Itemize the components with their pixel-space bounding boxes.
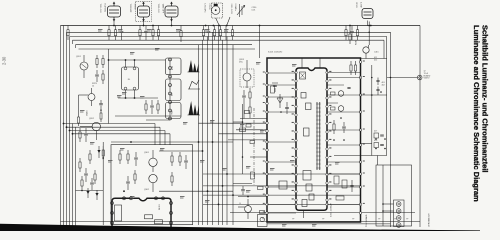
svg-text:X201 4.433: X201 4.433 [230, 4, 232, 15]
waveform W2 [189, 80, 199, 89]
svg-text:VIDEO: VIDEO [424, 78, 430, 80]
wire bus drop 259 [259, 26, 261, 59]
wire below IC [302, 210, 304, 218]
wire h130 [70, 130, 166, 132]
svg-text:T203 4.43: T203 4.43 [157, 4, 159, 14]
transistor Q301 [149, 158, 157, 166]
component inside DL301 [115, 205, 122, 221]
capacitor C235 [100, 100, 102, 103]
wire coil stub [113, 21, 115, 27]
junction [134, 97, 136, 99]
shield left v72 stub [72, 40, 74, 44]
transistor Q202 [92, 122, 100, 130]
junction [222, 185, 224, 187]
wire pin link [267, 141, 296, 143]
resistor R226 [145, 100, 147, 104]
transistor Q201 [80, 62, 88, 70]
junction [375, 148, 377, 150]
resistor R402 [355, 61, 357, 65]
wire h98 [118, 97, 158, 99]
resistor R305 [134, 170, 136, 174]
junction [125, 59, 127, 61]
resistor R403 [350, 61, 352, 65]
svg-text:C415: C415 [374, 52, 379, 54]
wire v78 [78, 95, 80, 114]
filter block FL202 [166, 58, 182, 75]
resistor R211 [232, 26, 234, 30]
wire pin link [267, 173, 296, 175]
svg-text:CT201: CT201 [134, 4, 136, 11]
svg-text:TAKE OFF: TAKE OFF [162, 4, 165, 14]
wire pin link [267, 161, 296, 163]
resistor R401 [349, 30, 351, 34]
wire pin link [267, 84, 296, 86]
svg-text:417: 417 [374, 131, 377, 133]
resistor R210 [220, 26, 222, 30]
svg-text:T202 BPF: T202 BPF [129, 4, 131, 14]
connector J402 [394, 200, 405, 227]
junction on 9V bus [152, 25, 154, 27]
wire pin link extra [327, 72, 361, 74]
wire v371 [371, 65, 373, 156]
wire h133 [73, 133, 171, 135]
capacitor C206 [225, 26, 227, 31]
junction on 9V bus [213, 25, 215, 27]
junction [371, 77, 373, 79]
net 9V supply bus [61, 25, 421, 27]
wire pin link [267, 72, 296, 74]
resistor R202 [108, 26, 110, 30]
IF transformer T201 [108, 2, 121, 22]
resistor R213 [357, 26, 359, 30]
block inside IC [306, 103, 312, 110]
junction [280, 111, 282, 113]
transistor Q205 [88, 94, 95, 101]
IF transformer T203 [165, 2, 178, 22]
wire pin link r [327, 186, 361, 188]
enclosure box top B2 [67, 31, 391, 33]
svg-text:412: 412 [374, 59, 377, 61]
wire h143r [361, 143, 372, 145]
svg-text:619MHz: 619MHz [234, 4, 236, 11]
wire h122c [233, 121, 243, 123]
resistor R244 [251, 172, 255, 179]
waveform W1 [189, 60, 199, 72]
junction [123, 190, 125, 192]
delay ladder DL1 [316, 102, 318, 170]
junction [371, 94, 373, 96]
wire pin link [267, 203, 296, 205]
junction [218, 204, 220, 206]
resistor R246 [260, 211, 265, 214]
wire v244 [243, 104, 245, 119]
diode D201 [98, 146, 100, 158]
capacitor C242 [242, 186, 244, 189]
wire h120 [146, 119, 170, 121]
resistor R227 [157, 100, 159, 104]
resistor R212 [345, 26, 347, 30]
junction on 9V bus [113, 25, 115, 27]
junction on 9V bus [171, 25, 173, 27]
filter block FL203 [166, 79, 182, 101]
block inside IC [304, 128, 310, 136]
junction [343, 139, 345, 141]
junction [100, 109, 102, 111]
wire video out [387, 77, 418, 79]
enclosure box left B2 [66, 32, 68, 226]
bandpass filter FL201 [122, 67, 139, 90]
feedthrough pins heavy box [266, 72, 269, 75]
junction [242, 121, 244, 123]
wire pin link r [327, 77, 361, 79]
capacitor C402 [376, 89, 379, 91]
pin chain FL stack [169, 58, 171, 120]
resistor R332 [331, 107, 336, 110]
wire pin link r [327, 161, 361, 163]
resistor R233 [79, 158, 81, 162]
junction [382, 210, 384, 212]
junction [232, 194, 234, 196]
capacitor C241 [243, 90, 245, 95]
box output stage top [361, 58, 387, 60]
junction [125, 97, 127, 99]
junction [242, 156, 244, 158]
IC IC301 jungle [296, 68, 327, 210]
block inside IC [309, 194, 314, 200]
filter block FL204 [166, 103, 182, 119]
capacitor C226 [151, 100, 153, 105]
resistor R333 [333, 120, 335, 124]
wire v242 [242, 104, 244, 174]
connector J301 [258, 215, 268, 227]
junction [382, 203, 384, 205]
resistor R321 [271, 86, 275, 93]
wire h221 [61, 221, 421, 223]
capacitor C202 [121, 26, 123, 31]
capacitor C333 [350, 185, 353, 187]
junction [349, 25, 351, 27]
box bottom right [376, 165, 412, 226]
junction [368, 25, 370, 27]
IF transformer L201 [212, 3, 223, 18]
svg-text:L201 APC: L201 APC [204, 4, 207, 14]
wire IC top stubs [301, 58, 303, 68]
parts cluster 410 [374, 143, 379, 148]
wire left col [102, 142, 104, 225]
shield box luminance [111, 145, 193, 225]
svg-text:1k: 1k [92, 86, 94, 88]
capacitor C232 [85, 168, 87, 173]
resistor R203 [115, 26, 117, 30]
resistor R303 [171, 152, 173, 156]
wire h183c [233, 183, 252, 185]
resistor R245 [258, 187, 264, 190]
capacitor C301 [135, 152, 137, 157]
wire FL201 top [125, 60, 127, 67]
wire h123r [199, 122, 268, 124]
resistor R334 [334, 176, 339, 184]
wire pin link r [327, 173, 361, 175]
shield line y40 [73, 39, 385, 41]
svg-text:TRAP: TRAP [171, 109, 174, 115]
diode D301 [277, 98, 283, 103]
wire v233 [232, 45, 234, 225]
transistor Q203 dashed box [240, 69, 254, 87]
resistor R222 [102, 55, 104, 59]
wire h196c [238, 196, 267, 198]
wire h133r [219, 133, 268, 135]
wire v202 [202, 40, 204, 225]
enclosure box right B1 [419, 26, 421, 228]
wire v75 lower [75, 127, 77, 226]
wire pin link r [327, 129, 361, 131]
wire pin link [267, 212, 296, 214]
capacitor C302 [185, 155, 187, 160]
svg-text:410: 410 [374, 140, 377, 142]
wire v222 [222, 40, 224, 225]
resistor R235 [102, 146, 104, 150]
pins IC301 [295, 71, 298, 74]
block inside IC [301, 93, 306, 99]
wire h95q [79, 94, 89, 96]
diode D203 [96, 190, 98, 200]
junction [198, 141, 200, 143]
junction [340, 117, 342, 119]
trimmer CT203 [239, 4, 241, 17]
junction [72, 133, 74, 135]
junction [102, 157, 104, 159]
wire h127 [67, 126, 161, 128]
block inside IC [300, 72, 306, 79]
wire v207 [207, 37, 209, 226]
enclosure box left B1 [63, 26, 65, 227]
svg-text:2SC: 2SC [239, 62, 243, 64]
transistor Q311 [338, 91, 344, 97]
svg-text:402: 402 [382, 84, 385, 86]
wire h129 [236, 129, 267, 131]
transistor Q312 [338, 106, 344, 112]
wire h60 [109, 59, 166, 61]
delay line IC DL301 [112, 198, 171, 228]
block inside IC [303, 171, 311, 181]
wire v212 [212, 32, 214, 225]
junction [207, 190, 209, 192]
resistor R243 [240, 128, 246, 132]
transistor Q302 [149, 174, 157, 182]
junction [368, 32, 370, 34]
capacitor C331 [347, 87, 350, 89]
capacitor C332 [343, 122, 345, 126]
shield line y36 [70, 36, 387, 38]
wire coil stub [367, 21, 369, 27]
transistor Q204 [245, 206, 252, 213]
wire v198 [198, 45, 200, 225]
resistor R234 [94, 170, 96, 174]
junction on 9V bus [205, 25, 207, 27]
wire h142 [111, 141, 233, 143]
wire pin link r [327, 144, 361, 146]
value annotations [98, 28, 103, 31]
svg-text:CHROMA OUT: CHROMA OUT [428, 213, 431, 227]
wire h191 [159, 190, 233, 192]
junction [202, 150, 204, 152]
resistor R335 [342, 180, 347, 188]
resistor R206 [158, 26, 160, 30]
block inside IC [306, 184, 312, 191]
capacitor C401 [376, 80, 379, 82]
enclosure box right B2 [390, 32, 392, 227]
resistor R312 [155, 220, 163, 224]
resistor R238 [78, 114, 80, 117]
junction [81, 190, 83, 192]
resistor R322 [279, 181, 287, 189]
wire h123 [64, 123, 156, 125]
svg-text:DL301: DL301 [159, 203, 161, 210]
parts near pins [245, 111, 250, 114]
wire h95r [361, 94, 387, 96]
block inside IC [302, 200, 307, 207]
resistor R223 [102, 70, 104, 74]
resistor R204 [139, 26, 141, 30]
junction [226, 173, 228, 175]
junction [247, 196, 249, 198]
svg-text:RGB: RGB [356, 40, 358, 45]
wire v218 [218, 26, 220, 226]
resistor R336 [336, 196, 344, 200]
junction [63, 123, 65, 125]
wire v108 [108, 49, 110, 124]
wire FL201 bottom [125, 90, 127, 98]
junction [259, 25, 261, 27]
wire h204 [203, 203, 361, 205]
junction [66, 126, 68, 128]
resistor R331 [331, 92, 336, 95]
shield line y49 [79, 48, 256, 50]
wire pin link [267, 111, 296, 113]
svg-text:LUM DEL: LUM DEL [104, 4, 106, 14]
svg-text:IC201 CX20192: IC201 CX20192 [268, 52, 283, 54]
wire h151 [159, 150, 203, 152]
wire h157c [250, 156, 267, 158]
shield line y44 [76, 44, 253, 46]
svg-text:CT202: CT202 [208, 4, 210, 11]
ceramic filter CF201 [362, 9, 373, 19]
capacitor C311 [272, 82, 278, 84]
wire L201 to bus [216, 18, 220, 26]
resistor R232 [89, 150, 91, 154]
svg-text:T201 4.43: T201 4.43 [99, 4, 101, 14]
capacitor C208 [351, 26, 353, 31]
resistor R311 [145, 215, 153, 219]
resistor R301 [119, 150, 121, 154]
capacitor C231 [85, 128, 87, 133]
wire coil stub [143, 21, 145, 27]
wire pin link [267, 96, 296, 98]
junction [134, 59, 136, 61]
wire CF201 drop [368, 22, 370, 46]
junction [130, 141, 132, 143]
resistor R205 [152, 26, 154, 30]
wire h185 [203, 185, 361, 187]
wire h174 [203, 173, 361, 175]
waveform W3 [189, 101, 200, 115]
resistor R231 [79, 128, 81, 132]
wire h118 [240, 118, 267, 120]
wire pin link r [327, 111, 361, 113]
junction on 9V bus [218, 25, 220, 27]
diode D202 [87, 188, 89, 198]
box right edge v386 [386, 37, 388, 156]
resistor R221 [96, 55, 98, 59]
junction [333, 139, 335, 141]
pin numbers IC301 [292, 71, 294, 72]
wire pin link [267, 186, 296, 188]
junction [108, 59, 110, 61]
junction [69, 130, 71, 132]
svg-text:TO V BOARD: TO V BOARD [365, 214, 368, 227]
scan edge black band [0, 224, 480, 231]
wire h116 [115, 115, 181, 117]
wire pin link r [327, 94, 361, 96]
transistor Q401 [363, 47, 369, 53]
pins DL301 [111, 202, 114, 205]
wire v72 lower [72, 124, 74, 227]
resistor R236 [81, 176, 83, 180]
wire bus left drop [60, 26, 62, 227]
svg-text:CF201: CF201 [355, 2, 357, 9]
junction on 9V bus [226, 25, 228, 27]
svg-text:VIDEO: VIDEO [87, 110, 89, 116]
junction [384, 148, 386, 150]
resistor R302 [127, 150, 129, 154]
resistor R242 [249, 102, 251, 107]
resistor R207 [180, 26, 182, 31]
junction [380, 91, 382, 93]
parts cluster 417 [374, 133, 379, 138]
resistor R241 [249, 88, 251, 92]
capacitor C233 [91, 178, 93, 182]
IF transformer T202 [136, 2, 152, 22]
shield left v75 stub [75, 45, 77, 48]
junction [384, 138, 386, 140]
svg-text:2-30: 2-30 [2, 56, 7, 65]
wire h139 [228, 139, 267, 141]
junction [212, 141, 214, 143]
wire h190L [76, 190, 104, 192]
shield left v69 [69, 37, 71, 227]
wire h212 [230, 212, 415, 214]
wire pin link r [327, 203, 361, 205]
wire coil stub [171, 21, 173, 27]
resistor R304 [179, 152, 181, 156]
box bottom y155 [334, 155, 387, 157]
box right edge v384 [383, 40, 385, 58]
shield boundary dash-dot [253, 108, 255, 185]
capacitor C303 [127, 176, 129, 181]
svg-text:4.43M: 4.43M [360, 2, 362, 8]
wire bottom right [382, 165, 384, 226]
resistor R201 [67, 26, 69, 30]
wire h195 [203, 194, 361, 196]
svg-text:Luminance and Chrominance Sche: Luminance and Chrominance Schematic Diag… [472, 25, 481, 202]
capacitor C205 [208, 26, 210, 31]
resistor R208 [203, 26, 205, 30]
junction on 9V bus [370, 25, 372, 27]
resistor R209 [214, 26, 216, 30]
capacitor C203 [145, 26, 147, 31]
wire v227 [226, 37, 228, 226]
connector J401 [417, 75, 422, 80]
